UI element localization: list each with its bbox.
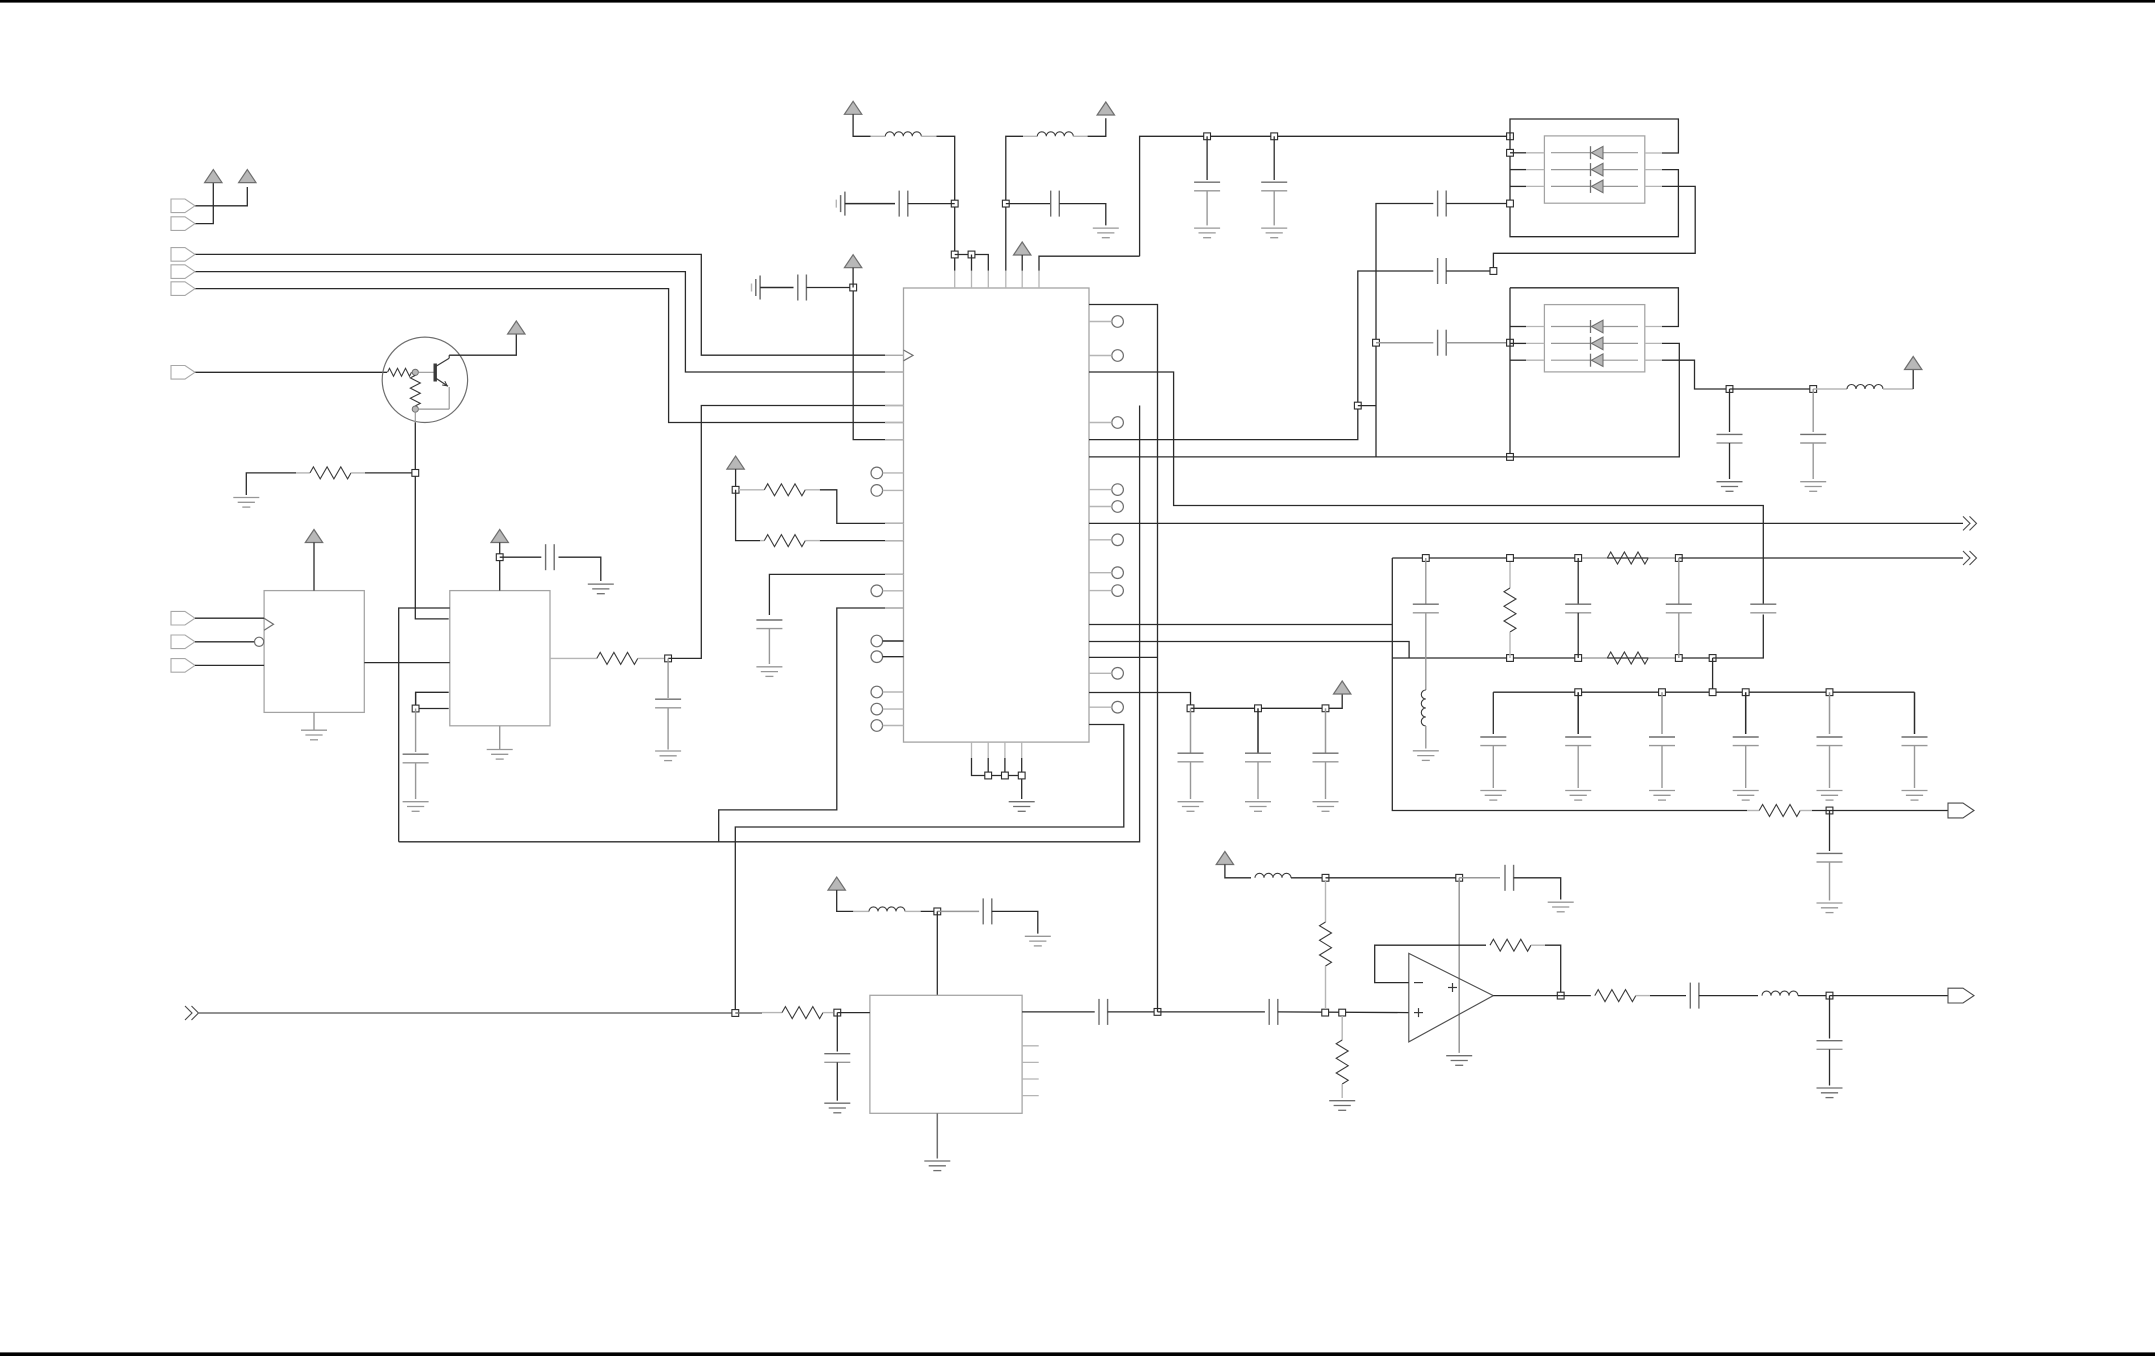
junction fbot r1 xyxy=(1507,655,1514,662)
ground C28 xyxy=(1025,936,1051,946)
capacitor C16 xyxy=(1800,434,1826,443)
wire C31 row xyxy=(1158,1011,1265,1013)
capacitor C8 xyxy=(756,620,782,629)
wire J1 to VCC2 riser xyxy=(195,187,247,206)
power flag VCC Q1 xyxy=(508,321,525,334)
wire C23 gnd lead xyxy=(1661,746,1663,788)
wire R4 to U1 xyxy=(820,490,904,524)
wire rail cap2 drop xyxy=(1273,136,1275,180)
wire C27 gnd xyxy=(1829,862,1831,901)
power flag R pair xyxy=(727,456,744,469)
audio IC U6 xyxy=(870,995,1022,1113)
junction opto2 left bot xyxy=(1507,454,1514,461)
U1 pin circle R14 xyxy=(1089,567,1123,579)
ground L4 xyxy=(1413,751,1439,761)
junction opamp vcc xyxy=(1456,874,1463,881)
wire bank rail xyxy=(1493,691,1914,693)
wire L3 lead xyxy=(1883,388,1913,390)
wire J8 to U2 xyxy=(195,641,254,643)
inversion bubble U2 xyxy=(255,637,264,646)
wire filter top rail xyxy=(1392,557,1679,559)
capacitor C21 xyxy=(1480,737,1506,746)
wire Rpair down xyxy=(736,490,760,541)
wire fb to out xyxy=(1545,945,1561,995)
wire J9 to U2 xyxy=(195,664,264,666)
U1 pin circle R21 xyxy=(1089,701,1123,713)
wire audio line2 xyxy=(735,1012,762,1014)
capacitor C11 xyxy=(1261,182,1287,191)
wire U6 vcc drop xyxy=(936,911,938,995)
wire bank drop C23 xyxy=(1661,692,1663,734)
capacitor C30 xyxy=(1099,999,1108,1025)
wire C6 to ground xyxy=(667,708,669,750)
U1 pin circle L7 xyxy=(871,467,904,479)
capacitor C35 xyxy=(1178,753,1204,762)
wire L1 lead xyxy=(871,135,886,137)
U1 pin circle L18 xyxy=(871,651,904,663)
capacitor C18 xyxy=(1565,604,1591,613)
wire U1 pin t4 riser xyxy=(1006,136,1023,270)
wire fc3 v2 xyxy=(1678,613,1680,658)
ground C22 xyxy=(1565,791,1591,801)
U1 pin circle L8 xyxy=(871,485,904,497)
wire C13 to junction xyxy=(1446,203,1510,205)
resistor R11 xyxy=(1320,881,1332,1009)
wire R10 cap drop xyxy=(836,1013,838,1052)
wire C4 to junction xyxy=(806,287,853,289)
resistor R3 xyxy=(597,652,664,664)
wire U2 out to U3 xyxy=(364,662,450,664)
junction bank1 xyxy=(1575,689,1582,696)
wire to J11 xyxy=(1830,995,1949,997)
ground R2 xyxy=(233,498,259,508)
diode U5 led3 xyxy=(1551,354,1638,367)
junction U3 vcc xyxy=(496,554,503,561)
ground C6 xyxy=(655,751,681,761)
junction opto1 rail xyxy=(1507,133,1514,140)
wire R10 to U6 xyxy=(837,1012,870,1014)
wire bus riser to U3 pin xyxy=(399,608,450,842)
capacitor C36 xyxy=(1245,753,1271,762)
junction Rpair xyxy=(732,486,739,493)
connector J7 xyxy=(171,611,195,625)
ground C9 xyxy=(1093,228,1119,238)
capacitor C2 xyxy=(899,191,908,217)
ground U3 xyxy=(487,750,513,760)
wire opto1 led2 stub xyxy=(1510,169,1526,171)
wire L1 lead2 xyxy=(921,135,936,137)
wire U3 vcc stem xyxy=(499,543,501,591)
power flag T9 xyxy=(1216,852,1233,865)
junction U6 vcc xyxy=(934,908,941,915)
wire C32 gnd xyxy=(1514,878,1561,900)
inductor L3 xyxy=(1847,385,1883,390)
capacitor C28 xyxy=(983,898,992,924)
wire C36 gnd lead xyxy=(1257,762,1259,799)
U4 pin stubs xyxy=(1526,153,1662,187)
wire C35 gnd lead xyxy=(1190,762,1192,799)
resistor R6 xyxy=(1504,562,1516,658)
capacitor C17 xyxy=(1413,604,1439,613)
wire C37 drop xyxy=(1325,708,1327,753)
wire C10 gnd lead xyxy=(1206,191,1208,225)
U1 pin circle R9 xyxy=(1089,484,1123,496)
wire L1 to pin xyxy=(937,136,955,270)
ground C8 xyxy=(756,667,782,677)
junction bias1 xyxy=(1322,1009,1329,1016)
U5 pin stubs xyxy=(1526,327,1662,361)
resistor R14 xyxy=(1595,990,1650,1002)
wire rail cap1 drop xyxy=(1206,136,1208,180)
clock arrow U1 xyxy=(904,350,914,361)
wire C28 gnd xyxy=(992,911,1038,933)
capacitor C26 xyxy=(1902,737,1928,746)
diode U5 led1 xyxy=(1551,320,1638,333)
power flag L1 xyxy=(844,101,861,114)
U1 pin circle R2 xyxy=(1089,316,1123,328)
junction Vout c2 xyxy=(1810,386,1817,393)
wire C26 gnd lead xyxy=(1914,746,1916,788)
wire C16 gnd xyxy=(1812,443,1814,479)
junction C14 xyxy=(1507,339,1514,346)
junction T4 xyxy=(850,284,857,291)
junction bank3 xyxy=(1709,689,1716,696)
connector J11 xyxy=(1948,988,1974,1003)
wire fc1 top lead xyxy=(1425,558,1427,604)
wire bank drop C22 xyxy=(1577,692,1579,734)
wire fbot right xyxy=(1713,615,1764,659)
power flag T10 xyxy=(1334,681,1351,694)
resistor R12 xyxy=(1336,1016,1348,1098)
junction byp3 xyxy=(1322,705,1329,712)
ground U1 bottom xyxy=(1009,802,1035,812)
ground C16 xyxy=(1800,482,1826,492)
junction fbot c2 xyxy=(1575,655,1582,662)
wire vout cap1 drop xyxy=(1729,389,1731,432)
wire fc3 v xyxy=(1678,558,1680,604)
wire opto2 led3 stub xyxy=(1510,359,1526,361)
ground C10 xyxy=(1194,228,1220,238)
power flag U3 xyxy=(491,530,508,543)
wire L7 to junction xyxy=(1798,995,1830,997)
wire C24 gnd lead xyxy=(1745,746,1747,788)
capacitor C5 xyxy=(546,544,555,570)
wire vout rail xyxy=(1730,388,1814,390)
junction ftop r1 xyxy=(1507,555,1514,562)
diode U4 led3 xyxy=(1551,180,1638,193)
U1 bottom pin stubs xyxy=(972,742,1022,758)
wire filter bot rail xyxy=(1392,657,1713,659)
wire U1 pin9 net xyxy=(1089,204,1433,457)
capacitor C7 xyxy=(403,754,429,763)
wire R9 cap drop xyxy=(1829,811,1831,852)
wire opto2 left v xyxy=(1509,288,1511,457)
ground C34 xyxy=(1817,1088,1843,1098)
resistor R8 xyxy=(1582,652,1675,664)
wire J5 net xyxy=(195,289,904,423)
junction byp2 xyxy=(1255,705,1262,712)
wire bias rail xyxy=(1326,877,1460,879)
wire top pin row xyxy=(955,255,989,271)
wire U6 out xyxy=(1022,1011,1095,1013)
capacitor C32 xyxy=(1505,865,1514,891)
wire ref riser xyxy=(1089,305,1158,1012)
wire opto2 led2 stub xyxy=(1510,342,1526,344)
wire Q1 collector to VCC xyxy=(449,334,516,355)
capacitor C6 xyxy=(655,699,681,708)
power flag VCC2 xyxy=(239,170,256,183)
connector J10 xyxy=(1948,803,1974,818)
junction byp1 xyxy=(1187,705,1194,712)
wire sense wire xyxy=(1089,656,1158,658)
capacitor C4 xyxy=(798,275,807,301)
wire rowB cap xyxy=(1376,342,1433,344)
wire T6 stem xyxy=(1021,255,1023,271)
wire L2 lead1 xyxy=(1023,135,1037,137)
ground R12 xyxy=(1329,1101,1355,1111)
wire top pin 971 drop xyxy=(971,255,973,271)
wire opto1 led1 stub xyxy=(1510,152,1526,154)
wire h link 405 xyxy=(1358,405,1376,407)
optocoupler U5 xyxy=(1544,305,1644,372)
junction bank2 xyxy=(1659,689,1666,696)
wire L2 lead2 xyxy=(1073,135,1087,137)
ground U6 xyxy=(924,1161,950,1171)
ground C25 xyxy=(1817,791,1843,801)
U1 pin circle R12 xyxy=(1089,534,1123,546)
wire C7 to ground xyxy=(415,763,417,799)
ground C5 xyxy=(588,584,614,594)
capacitor C9 xyxy=(1051,191,1060,217)
junction bpin a xyxy=(985,772,992,779)
output chevron OUT1 xyxy=(1963,516,1977,530)
capacitor C34 xyxy=(1817,1041,1843,1050)
wire C12 to junction xyxy=(1446,270,1493,272)
wire L5 lead2 xyxy=(905,910,921,912)
wire R14 to C33 xyxy=(1650,995,1686,997)
capacitor C25 xyxy=(1817,737,1843,746)
resistor R10 xyxy=(762,1007,833,1019)
wire C8 ground lead xyxy=(768,629,770,664)
wire bank drop C26 xyxy=(1914,692,1916,734)
wire opto1 left v xyxy=(1510,136,1678,236)
junction opto1 led1 xyxy=(1507,149,1514,156)
connector J8 xyxy=(171,635,195,649)
wire C21 gnd lead xyxy=(1492,746,1494,788)
wire J4 net xyxy=(195,272,904,372)
wire C11 gnd lead xyxy=(1273,191,1275,225)
wire J3 net xyxy=(195,254,904,355)
junction bank5 xyxy=(1826,689,1833,696)
wire out2 net xyxy=(1089,522,1963,524)
capacitor C24 xyxy=(1733,737,1759,746)
wire U1 bpin3 xyxy=(1004,758,1006,776)
main IC U1 xyxy=(904,288,1090,742)
wire C5 to ground xyxy=(559,557,601,581)
wire fc2 v2 xyxy=(1577,613,1579,658)
capacitor C1 pol xyxy=(836,192,845,216)
inductor L7 xyxy=(1762,991,1798,996)
wire opamp vcc drop xyxy=(1458,878,1460,1053)
U1 pin circle R19 xyxy=(1089,668,1123,680)
wire L5 lead1 xyxy=(853,910,869,912)
inductor L4 xyxy=(1421,690,1426,726)
ground C35 xyxy=(1178,802,1204,812)
wire top row b xyxy=(1039,256,1140,271)
wire fb loop xyxy=(1375,945,1486,982)
ground C11 xyxy=(1261,228,1287,238)
U1 pin circle R15 xyxy=(1089,585,1123,597)
diode U4 led2 xyxy=(1551,163,1638,176)
U6 right pin stubs xyxy=(1022,1046,1039,1096)
junction bias top xyxy=(1322,874,1329,881)
capacitor C15 xyxy=(1717,434,1743,443)
junction pin8 h xyxy=(1354,402,1361,409)
wire U1 bpin2 xyxy=(987,758,989,776)
wire L2 to VCC xyxy=(1088,118,1106,136)
wire filter bot feed xyxy=(1089,642,1409,659)
capacitor C27 xyxy=(1817,853,1843,862)
wire out to R14 xyxy=(1561,995,1591,997)
wire U1 bottom pins xyxy=(972,758,1022,799)
junction U3 bypass xyxy=(412,705,419,712)
wire C28 row xyxy=(937,910,979,912)
wire U1 pin13 cap xyxy=(769,574,903,615)
wire bypass cap drop xyxy=(415,709,417,753)
wire opto2 out xyxy=(1662,360,1730,389)
wire fc1 down xyxy=(1425,613,1427,690)
wire opto2 led1 stub xyxy=(1510,326,1526,328)
top border bar xyxy=(0,0,2155,3)
wire R5 to U1 xyxy=(820,540,904,542)
junction ref tee xyxy=(1154,1009,1161,1016)
capacitor C37 xyxy=(1313,753,1339,762)
capacitor C20 xyxy=(1750,604,1776,613)
wire U3 gnd stem xyxy=(499,726,501,750)
junction ftop c1 xyxy=(1422,555,1429,562)
output chevron OUT2 xyxy=(1963,551,1977,565)
power flag T8 xyxy=(828,877,845,890)
wire C37 gnd lead xyxy=(1325,762,1327,799)
capacitor C10 xyxy=(1194,182,1220,191)
resistor R5 xyxy=(760,535,820,547)
wire C30 to tee xyxy=(1108,1011,1158,1013)
wire C1 link xyxy=(845,203,895,205)
capacitor C33 xyxy=(1690,983,1699,1009)
junction bpin b xyxy=(1002,772,1009,779)
wire U3 pin cap row1 xyxy=(416,692,449,708)
junction C12 xyxy=(1490,268,1497,275)
wire C9 to gnd xyxy=(1059,204,1106,226)
ground C24 xyxy=(1733,791,1759,801)
wire filter feed riser xyxy=(1392,558,1747,811)
wire U1 bpin4 xyxy=(1021,758,1023,776)
wire C9 row xyxy=(1006,203,1051,205)
U1 top pin stubs xyxy=(955,271,1039,288)
wire C22 gnd lead xyxy=(1577,746,1579,788)
wire opto1 row3 loop xyxy=(1493,186,1695,271)
wire opto1 top loop xyxy=(1510,119,1678,153)
junction rail c2 xyxy=(1271,133,1278,140)
resistor R9 xyxy=(1747,805,1812,817)
U1 pin circle L14 xyxy=(871,585,904,597)
junction audio tee xyxy=(732,1010,739,1017)
wire C34 gnd xyxy=(1829,1049,1831,1085)
capacitor C19 xyxy=(1666,604,1692,613)
ground C15 xyxy=(1717,482,1743,492)
wire cap junction to U1 pin5 xyxy=(853,291,903,440)
U1 pin circle L21 xyxy=(871,703,904,715)
connector J3 xyxy=(171,248,195,262)
ground C29 xyxy=(824,1103,850,1113)
connector J4 xyxy=(171,265,195,279)
capacitor C22 xyxy=(1565,737,1591,746)
wire L5 to junction xyxy=(921,910,938,912)
power flag U2 xyxy=(305,530,322,543)
wire R2 to junction xyxy=(365,472,412,474)
wire C15 gnd xyxy=(1729,443,1731,479)
diode U4 led1 xyxy=(1551,146,1638,159)
power flag T7 xyxy=(1905,357,1922,370)
junction R10 out xyxy=(834,1009,841,1016)
transistor Q1 xyxy=(382,337,467,422)
wire J6 to Q1 base xyxy=(195,371,387,373)
junction rowB xyxy=(1373,339,1380,346)
wire filter out xyxy=(1679,557,1963,559)
wire L6 to junction xyxy=(1291,877,1326,879)
wire T9 stem xyxy=(1225,865,1251,878)
connector J5 xyxy=(171,282,195,296)
wire U2 gnd stem xyxy=(313,712,315,730)
clock arrow U2 xyxy=(264,618,273,630)
wire T8 stem xyxy=(837,890,854,911)
wire Q1 emitter down xyxy=(415,422,448,619)
capacitor C31 xyxy=(1269,999,1278,1025)
wire R3 junction to U1 pin3 xyxy=(668,406,903,659)
wire audio line xyxy=(198,1012,735,1014)
ground C36 xyxy=(1245,802,1271,812)
inductor L1 xyxy=(885,132,921,137)
U1 pin circle R4 xyxy=(1089,350,1123,362)
resistor R7 xyxy=(1582,552,1675,564)
U1 pin circle L22 xyxy=(871,720,904,732)
wire U6 gnd stem xyxy=(936,1113,938,1158)
connector J2 xyxy=(171,217,195,231)
resistor R4 xyxy=(739,484,820,496)
junction C9 xyxy=(1002,200,1009,207)
capacitor C3 pol xyxy=(752,276,761,300)
wire filter top feed xyxy=(1089,624,1392,626)
wire fbot to bank xyxy=(1712,658,1714,692)
wire U1 pin8 net xyxy=(1089,271,1433,440)
flip-flop U2 xyxy=(264,591,364,713)
pll U3 xyxy=(450,591,550,726)
wire opto2 top loop xyxy=(1510,288,1678,327)
wire byp row xyxy=(1191,695,1343,709)
wire R2 to ground xyxy=(246,473,296,495)
ground C7 xyxy=(403,802,429,812)
ground U2 xyxy=(301,730,327,740)
junction top row xyxy=(968,251,975,258)
inductor L5 xyxy=(869,907,905,912)
wire opamp out xyxy=(1493,995,1560,997)
wire U2 vcc stem xyxy=(313,543,315,591)
wire C33 to L7 xyxy=(1699,995,1758,997)
junction Vout c1 xyxy=(1726,386,1733,393)
wire L3 to VCC xyxy=(1912,370,1914,390)
ground C27 xyxy=(1817,903,1843,913)
capacitor C29 xyxy=(824,1054,850,1063)
